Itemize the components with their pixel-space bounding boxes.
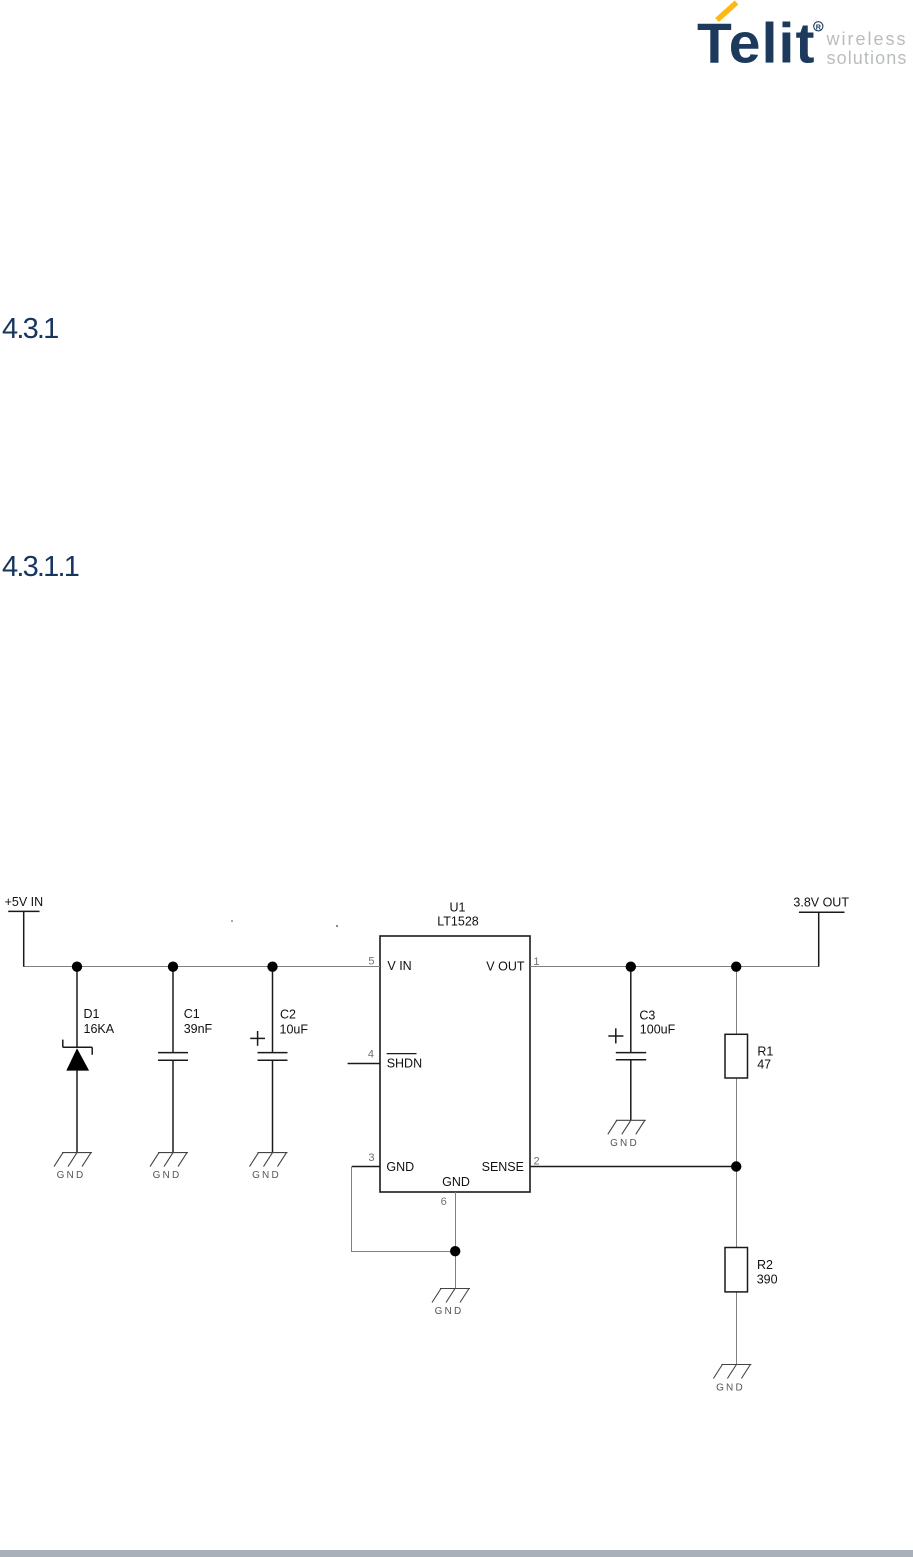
svg-text:U1: U1	[450, 901, 466, 915]
svg-text:Telit: Telit	[697, 12, 815, 76]
svg-text:SHDN: SHDN	[387, 1056, 422, 1070]
svg-text:6: 6	[441, 1196, 447, 1208]
svg-text:GND: GND	[153, 1170, 182, 1181]
svg-text:3: 3	[368, 1152, 374, 1164]
svg-text:GND: GND	[435, 1306, 464, 1317]
svg-text:GND: GND	[57, 1170, 86, 1181]
svg-text:C3: C3	[639, 1009, 655, 1023]
svg-text:3.8V OUT: 3.8V OUT	[793, 896, 849, 910]
svg-text:100uF: 100uF	[640, 1023, 676, 1037]
svg-text:SENSE: SENSE	[482, 1160, 524, 1174]
svg-text:GND: GND	[716, 1383, 745, 1394]
svg-text:D1: D1	[84, 1007, 100, 1021]
svg-text:4: 4	[368, 1048, 374, 1060]
svg-text:39nF: 39nF	[184, 1022, 213, 1036]
svg-text:1: 1	[533, 956, 539, 968]
svg-text:V OUT: V OUT	[486, 960, 525, 974]
svg-text:5: 5	[368, 955, 374, 967]
svg-text:2: 2	[534, 1155, 540, 1167]
svg-text:R: R	[816, 22, 822, 31]
svg-text:47: 47	[757, 1058, 771, 1072]
svg-text:R1: R1	[757, 1045, 773, 1059]
svg-text:10uF: 10uF	[280, 1023, 309, 1037]
svg-text:390: 390	[757, 1273, 778, 1287]
svg-text:+5V IN: +5V IN	[5, 895, 44, 909]
svg-text:16KA: 16KA	[84, 1022, 115, 1036]
svg-text:C2: C2	[280, 1008, 296, 1022]
svg-text:GND: GND	[442, 1175, 470, 1189]
svg-text:C1: C1	[184, 1007, 200, 1021]
svg-text:V IN: V IN	[387, 959, 411, 973]
svg-text:GND: GND	[610, 1138, 639, 1149]
svg-text:solutions: solutions	[827, 48, 908, 68]
svg-text:R2: R2	[757, 1258, 773, 1272]
svg-text:LT1528: LT1528	[437, 915, 479, 929]
svg-text:GND: GND	[252, 1170, 281, 1181]
svg-text:GND: GND	[386, 1160, 414, 1174]
svg-text:wireless: wireless	[826, 29, 908, 49]
